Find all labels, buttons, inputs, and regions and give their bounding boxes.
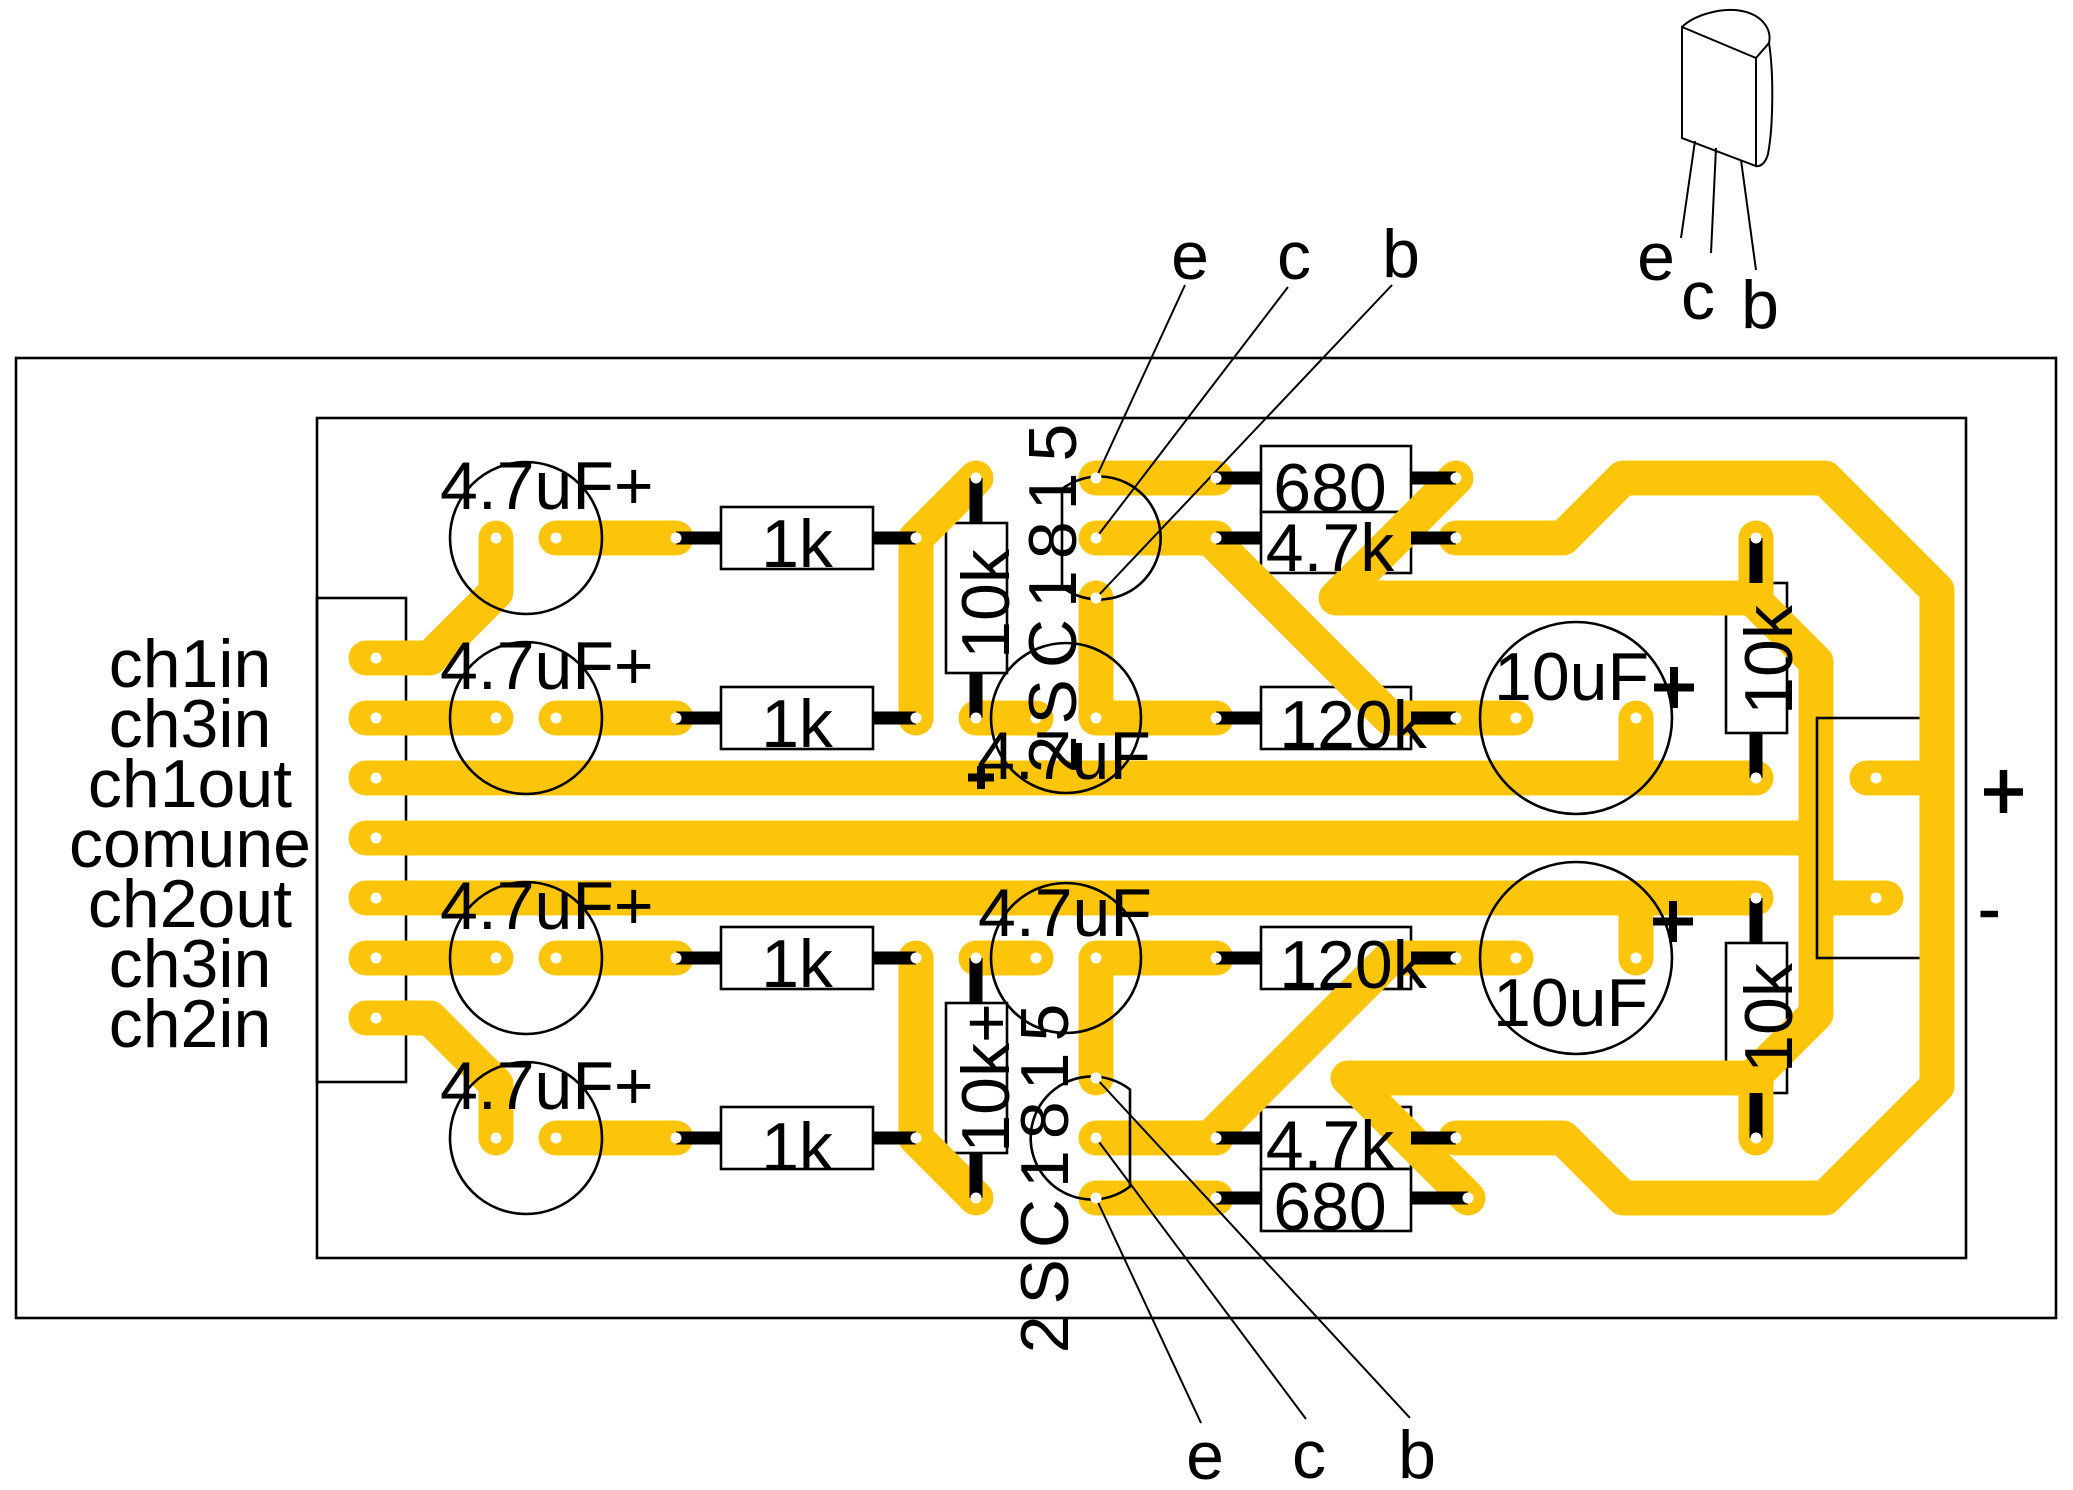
svg-text:b: b (1741, 267, 1779, 343)
resistor R4 1k body (721, 1107, 873, 1169)
transistor package TO-92 leg c (1711, 148, 1716, 253)
R13 pad holes (1751, 533, 1762, 544)
svg-text:4.7uF: 4.7uF (978, 875, 1152, 951)
R9 leads (1216, 712, 1456, 725)
capacitor C7 outline (1480, 622, 1672, 814)
connector pad holes (371, 653, 382, 664)
svg-text:1k: 1k (761, 1109, 834, 1185)
svg-text:1k: 1k (761, 926, 834, 1002)
resistor R12 680 body (bottom) (1261, 1169, 1411, 1231)
R3 leads (676, 952, 916, 965)
svg-text:b: b (1398, 1417, 1436, 1490)
resistor R6 10k body (left bottom) (946, 1003, 1007, 1153)
C4 pad holes (491, 953, 502, 964)
resistor R9 120k body (top) (1261, 687, 1411, 749)
svg-text:120k: 120k (1279, 927, 1427, 1003)
C8 pad holes (1511, 953, 1522, 964)
line e label to Q1 emitter (1096, 285, 1185, 478)
wire ch3in pad to C2 left pad (366, 701, 496, 736)
C1 pad holes (491, 533, 502, 544)
capacitor C4 outline (450, 882, 602, 1034)
wire R6 top to C5 left pad (976, 941, 1036, 976)
svg-text:4.7uF+: 4.7uF+ (440, 448, 654, 524)
svg-text:c: c (1292, 1417, 1326, 1490)
capacitor C8 outline (1480, 862, 1672, 1054)
label C7 plus (1654, 667, 1694, 708)
wire Q1 emitter to R7 left (1096, 461, 1216, 496)
transistor package TO-92 sketch top arc (1682, 10, 1770, 58)
wire ch2in pad to C6 left pad (366, 1018, 496, 1138)
wire plus pad (1867, 761, 1937, 796)
capacitor C1 outline (450, 462, 602, 614)
svg-text:10k: 10k (948, 548, 1024, 659)
transistor package TO-92 sketch front face (1682, 27, 1756, 166)
wire Q2 base to C5 right pad and R10 left (1096, 958, 1216, 1078)
R12 leads (1216, 1192, 1468, 1205)
resistor R5 10k body (left top) (946, 523, 1007, 673)
outer frame (16, 358, 2056, 1318)
C2 pad holes (491, 713, 502, 724)
C7 pad holes (1511, 713, 1522, 724)
svg-text:e: e (1186, 1418, 1224, 1490)
capacitor C2 outline (450, 642, 602, 794)
capacitor C6 outline (450, 1062, 602, 1214)
wire minus pad (1816, 881, 1886, 916)
wire C6 right pad to R4 (556, 1121, 676, 1156)
svg-text:ch2in: ch2in (109, 986, 272, 1062)
R8 pad holes (1211, 533, 1222, 544)
wire R7 right to R13 top and ground (1336, 478, 1756, 598)
wire Q1 collector to R8 left (1096, 521, 1216, 556)
svg-text:120k: 120k (1279, 687, 1427, 763)
power connector J2 (1817, 718, 1936, 958)
transistor Q2 outline (1031, 1077, 1130, 1200)
svg-text:e: e (1171, 218, 1209, 294)
line c label to Q1 collector (1096, 287, 1288, 538)
wire Q2 collector to R11 left (1096, 1121, 1216, 1156)
R4 leads (676, 1132, 916, 1145)
R2 pad holes (671, 713, 682, 724)
wire R1 right / R2 right to R5 top (916, 478, 976, 718)
R10 pad holes (1211, 953, 1222, 964)
R6 leads (970, 958, 983, 1198)
wire R12 right to R14 bottom and ground (1348, 1078, 1756, 1198)
line b label to Q2 base (1096, 1078, 1410, 1418)
R12 pad holes (1211, 1193, 1222, 1204)
R3 pad holes (671, 953, 682, 964)
R10 leads (1216, 952, 1456, 965)
wire ch1out row to R13 bottom (366, 761, 1756, 796)
resistor R10 120k body (bottom) (1261, 927, 1411, 989)
resistor R14 10k body (right bottom) (1726, 943, 1787, 1093)
wire comune row to ground bus (366, 821, 1816, 856)
R2 leads (676, 712, 916, 725)
capacitor C3 outline (991, 643, 1141, 793)
svg-text:b: b (1382, 216, 1420, 292)
line b label to Q1 base (1096, 285, 1392, 598)
line c label to Q2 collector (1096, 1138, 1306, 1419)
wire C4 right pad to R3 (556, 941, 676, 976)
wire ch3in2 pad to C4 left pad (366, 941, 496, 976)
svg-text:1k: 1k (761, 506, 834, 582)
R7 pad holes (1211, 473, 1222, 484)
svg-text:10uF: 10uF (1493, 965, 1648, 1041)
transistor package TO-92 leg e (1681, 141, 1695, 238)
svg-text:4.7uF+: 4.7uF+ (440, 868, 654, 944)
wire supply staircase R8 right to R11 right (1456, 478, 1937, 1198)
transistor Q1 outline (1062, 477, 1161, 600)
wire C2 right pad to R2 (556, 701, 676, 736)
label plus power (1984, 770, 2023, 813)
R13 leads (1750, 538, 1763, 778)
svg-text:4.7uF+: 4.7uF+ (440, 1048, 654, 1124)
R5 leads (970, 478, 983, 718)
R14 leads (1750, 898, 1763, 1138)
resistor R1 1k body (721, 507, 873, 569)
svg-text:c: c (1681, 258, 1715, 334)
C6 pad holes (491, 1133, 502, 1144)
svg-text:680: 680 (1273, 1169, 1386, 1245)
R4 pad holes (671, 1133, 682, 1144)
line e label to Q2 emitter (1096, 1198, 1201, 1423)
R14 pad holes (1751, 893, 1762, 904)
board outline (317, 418, 1966, 1258)
svg-text:c: c (1277, 218, 1311, 294)
resistor R8 4.7k body (top) (1261, 512, 1411, 573)
R8 leads (1216, 532, 1456, 545)
svg-text:1k: 1k (761, 686, 834, 762)
R11 pad holes (1211, 1133, 1222, 1144)
wire R3 right / R4 right to R6 bottom (916, 958, 976, 1198)
svg-text:e: e (1637, 219, 1675, 295)
wire C1 right pad to R1 (556, 521, 676, 556)
C5 pad holes (1031, 953, 1042, 964)
svg-text:4.7k: 4.7k (1266, 510, 1396, 586)
wire ch2out row to R14 top (366, 881, 1756, 916)
R1 leads (676, 532, 916, 545)
wire collector node to R9 right and C7 left pad (1210, 538, 1516, 718)
resistor R2 1k body (721, 687, 873, 749)
resistor R7 680 body (top) (1261, 446, 1411, 512)
wire C7 right pad stub (1619, 718, 1654, 778)
R5 pad holes (971, 473, 982, 484)
input connector J1 (317, 598, 406, 1082)
resistor R11 4.7k body (bottom) (1261, 1107, 1411, 1169)
power pad holes (1871, 773, 1882, 784)
svg-text:10k: 10k (1731, 962, 1807, 1073)
Q2 pad holes (1091, 1073, 1102, 1084)
wire collector node to R10 right and C8 left pad (1210, 958, 1516, 1138)
R6 pad holes (971, 953, 982, 964)
capacitor C5 outline (991, 883, 1141, 1033)
R1 pad holes (671, 533, 682, 544)
wire R5 bottom to C3 left pad (976, 701, 1036, 736)
wire ground bus (1752, 598, 1816, 1078)
label C3 plus (968, 766, 994, 789)
label minus power (1981, 911, 1999, 918)
wire C8 right pad stub (1619, 898, 1654, 958)
svg-text:2SC1815: 2SC1815 (1007, 993, 1083, 1354)
transistor package TO-92 sketch side (1756, 43, 1772, 166)
svg-text:10uF: 10uF (1494, 639, 1649, 715)
R7 leads (1216, 472, 1456, 485)
svg-text:4.7uF+: 4.7uF+ (440, 628, 654, 704)
R11 leads (1216, 1132, 1456, 1145)
Q1 pad holes (1091, 473, 1102, 484)
svg-text:10k: 10k (1731, 604, 1807, 715)
wire Q1 base to C3 right pad and R9 left (1096, 598, 1216, 718)
svg-text:2SC1815: 2SC1815 (1015, 413, 1091, 774)
wire ch1in pad to C1 left pad (366, 538, 496, 658)
C3 pad holes (1031, 713, 1042, 724)
wire Q2 emitter to R12 left (1096, 1181, 1216, 1216)
resistor R13 10k body (right top) (1726, 583, 1787, 733)
R9 pad holes (1211, 713, 1222, 724)
resistor R3 1k body (721, 927, 873, 989)
label C8 plus (1653, 901, 1693, 942)
transistor package TO-92 leg b (1741, 160, 1756, 270)
